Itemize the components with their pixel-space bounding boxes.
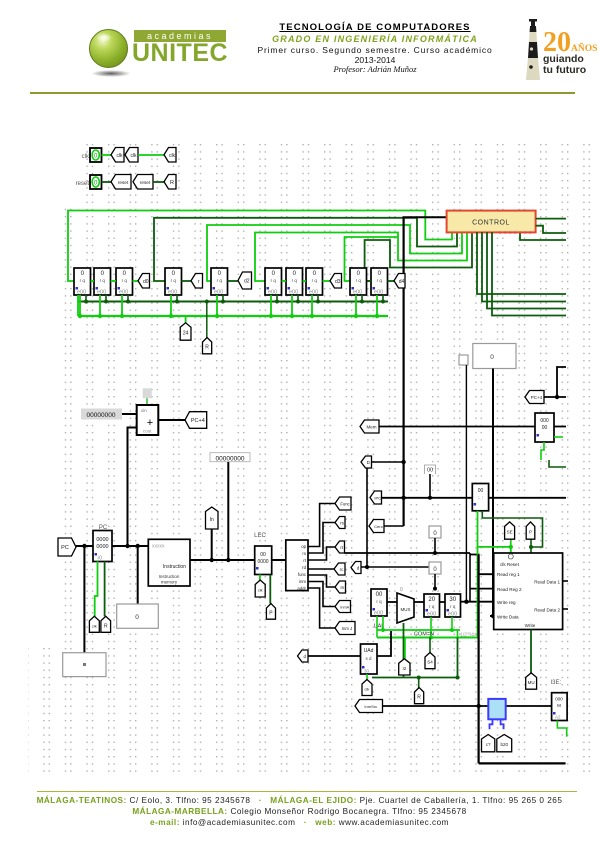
junction — [205, 300, 209, 304]
svg-text:r q: r q — [100, 278, 106, 283]
wire — [536, 226, 566, 233]
svg-text:e00: e00 — [374, 290, 383, 296]
junction — [104, 300, 108, 304]
wire — [470, 588, 494, 590]
tunnel P2 — [526, 522, 535, 539]
tunnel InmAli — [335, 601, 351, 613]
svg-text:InmA: InmA — [340, 606, 349, 610]
wire — [105, 295, 107, 302]
footer line 1 — [0, 796, 599, 805]
junction — [120, 314, 124, 318]
title line 1 — [230, 22, 520, 33]
wire — [465, 365, 467, 602]
junction — [125, 544, 129, 548]
svg-text:M: M — [557, 703, 561, 708]
tunnel blue a — [482, 735, 495, 752]
wire — [216, 295, 218, 316]
wire dg riser — [457, 638, 459, 678]
svg-text:Read reg 1: Read reg 1 — [497, 572, 520, 577]
svg-text:xxxxx: xxxxx — [152, 544, 165, 550]
register row box 3 — [116, 268, 133, 296]
title line 5 — [230, 64, 520, 74]
wire — [429, 638, 431, 653]
junction — [136, 544, 140, 548]
wire — [170, 295, 172, 316]
junction — [316, 300, 320, 304]
wire — [176, 295, 178, 302]
junction — [175, 300, 179, 304]
svg-text:LEC: LEC — [254, 533, 266, 539]
wire — [478, 555, 480, 764]
wire — [414, 601, 424, 603]
junction — [375, 314, 379, 318]
tunnel blue b — [497, 735, 512, 752]
control unit — [447, 211, 536, 233]
junction — [226, 558, 230, 562]
tunnel instr hang — [206, 507, 219, 529]
svg-text:e00: e00 — [214, 290, 223, 296]
svg-text:Mem: Mem — [367, 425, 377, 430]
wire lg zig — [541, 442, 544, 460]
junction — [84, 300, 88, 304]
junction — [210, 558, 214, 562]
wire — [477, 232, 566, 294]
box 0 mid2 — [429, 562, 441, 574]
svg-text:+: + — [147, 417, 153, 429]
tunnel Func — [335, 497, 351, 510]
svg-text:00000000: 00000000 — [87, 412, 116, 419]
wire — [282, 280, 287, 282]
wire — [384, 525, 404, 527]
junction — [275, 300, 279, 304]
wire — [388, 280, 395, 282]
junction — [365, 565, 369, 569]
wire control W1 — [68, 211, 452, 282]
logo shadow — [91, 70, 131, 77]
register row box 5 — [211, 268, 228, 296]
tunnel Inm — [335, 581, 346, 593]
wire — [211, 529, 213, 560]
mux — [397, 593, 414, 623]
wire lg bus b — [377, 637, 478, 639]
svg-text:R: R — [104, 623, 108, 629]
wire — [434, 538, 436, 553]
register X1 — [371, 589, 387, 617]
wire — [554, 436, 563, 438]
svg-text:In: In — [210, 517, 214, 523]
wire — [133, 280, 139, 282]
tunnel ImJ — [335, 622, 355, 635]
svg-text:r q: r q — [80, 278, 86, 283]
tunnel D hang — [361, 456, 372, 468]
junction — [290, 314, 294, 318]
wire rf out2 — [563, 608, 568, 610]
wire — [355, 295, 357, 316]
wire — [403, 216, 448, 218]
tunnel Cero — [369, 520, 384, 533]
tunnel PC+4 out — [185, 412, 207, 429]
register row box 1 — [74, 268, 91, 296]
wire — [457, 630, 459, 638]
wire — [479, 762, 566, 764]
svg-text:MU: MU — [528, 680, 535, 685]
wire — [492, 232, 566, 316]
svg-text:reset: reset — [140, 180, 151, 185]
svg-text:Write Data: Write Data — [497, 615, 519, 620]
wire — [376, 616, 378, 638]
register row box 2 — [94, 268, 111, 296]
wire — [137, 546, 139, 604]
wire — [185, 316, 187, 324]
junction — [555, 395, 559, 399]
wire — [308, 655, 361, 657]
svg-text:00: 00 — [542, 425, 548, 431]
junction — [429, 636, 433, 640]
svg-text:R: R — [205, 345, 209, 351]
svg-text:cout: cout — [143, 429, 152, 434]
junction — [491, 614, 495, 618]
svg-text::. :: :. : — [478, 495, 483, 500]
tunnel d4 — [394, 274, 405, 289]
label 00000000 — [210, 453, 250, 463]
wire — [544, 396, 566, 398]
wire — [492, 369, 494, 617]
svg-text:rs: rs — [302, 551, 306, 556]
wire — [308, 504, 335, 547]
svg-text:0: 0 — [490, 354, 494, 361]
tunnel r1 — [191, 274, 203, 289]
svg-text:clk: clk — [169, 153, 176, 159]
wire dg h 677 — [372, 677, 458, 679]
wire — [430, 617, 432, 638]
wire — [77, 295, 79, 316]
grey box bottom-left — [63, 653, 106, 677]
svg-text:memory: memory — [161, 580, 178, 585]
wire — [530, 630, 532, 674]
wire vertical bus — [403, 217, 405, 526]
wire — [112, 545, 148, 547]
svg-text:d4: d4 — [399, 279, 405, 285]
svg-text:r q: r q — [429, 604, 435, 609]
register row box 4 — [165, 268, 182, 296]
wire control W6 — [345, 237, 399, 281]
wire — [530, 539, 532, 553]
svg-text:Read Data 2: Read Data 2 — [534, 608, 560, 613]
svg-text:Func: Func — [340, 502, 349, 507]
svg-text:clk Reset: clk Reset — [500, 562, 520, 567]
svg-text:clk: clk — [82, 154, 90, 160]
svg-text:e00: e00 — [289, 290, 298, 296]
probe above adder — [143, 388, 152, 398]
junction — [456, 676, 460, 680]
wire — [111, 280, 117, 282]
tunnel d3 — [330, 274, 342, 289]
svg-text:clk: clk — [116, 153, 123, 159]
wire — [308, 547, 335, 560]
junction — [433, 587, 437, 591]
svg-text:A2: A2 — [555, 715, 561, 720]
svg-text:reset: reset — [76, 181, 90, 187]
svg-text:30: 30 — [449, 597, 456, 603]
svg-text:00: 00 — [260, 552, 266, 558]
wire — [490, 615, 494, 617]
svg-text:00: 00 — [376, 592, 383, 598]
wire — [272, 559, 286, 561]
svg-text:inm: inm — [299, 579, 306, 584]
tunnel InmSrc — [355, 700, 383, 713]
tunnel S4b hang — [425, 653, 435, 669]
svg-text:00000000: 00000000 — [216, 456, 245, 463]
svg-text:addr: addr — [297, 586, 306, 591]
tunnel P ir — [266, 604, 275, 620]
tunnel d0 — [138, 274, 150, 289]
svg-text:clk: clk — [258, 588, 263, 593]
tunnel R hang — [203, 338, 212, 354]
svg-text:UAd: UAd — [364, 648, 374, 654]
svg-text:r q: r q — [377, 278, 383, 283]
svg-text:clk: clk — [365, 687, 370, 692]
tunnel clk ir — [255, 580, 265, 597]
register row box 9 — [350, 268, 367, 296]
wire — [102, 181, 113, 183]
input pin clk — [90, 148, 102, 162]
wire rf out1 — [563, 580, 568, 582]
UNITEC wordmark — [132, 41, 238, 66]
wire — [99, 295, 101, 316]
wire control W2 — [154, 218, 457, 281]
junction — [354, 314, 358, 318]
wire — [104, 561, 106, 616]
wire — [308, 568, 335, 570]
tunnel S2 hang — [399, 659, 410, 675]
probe small — [459, 355, 468, 365]
svg-text:0: 0 — [135, 614, 139, 621]
wire — [297, 295, 299, 302]
wire — [190, 559, 255, 561]
svg-text:clk: clk — [130, 153, 137, 159]
tunnel mem hang — [360, 420, 379, 433]
wire — [557, 367, 566, 397]
logo ball highlight — [96, 33, 112, 42]
svg-text:Cero: Cero — [374, 524, 383, 529]
svg-text:00: 00 — [478, 488, 484, 494]
box 0 top — [473, 344, 516, 369]
tunnel R — [164, 175, 176, 190]
junction — [381, 628, 385, 632]
register IR — [255, 546, 272, 575]
junction — [464, 600, 468, 604]
svg-text:S4: S4 — [427, 660, 433, 665]
svg-text:SE: SE — [507, 530, 513, 535]
big 0 box left — [117, 604, 159, 628]
wire — [536, 218, 566, 220]
ual box — [361, 644, 378, 674]
svg-text:e00: e00 — [119, 290, 128, 296]
junction — [98, 314, 102, 318]
academias bar — [134, 30, 226, 42]
svg-text:Instruction: Instruction — [159, 574, 180, 579]
svg-text:Inm J: Inm J — [342, 626, 352, 631]
wire — [122, 413, 137, 415]
tunnel rc — [334, 563, 345, 575]
box 0 mid1 — [429, 526, 441, 538]
wire — [95, 561, 98, 616]
svg-text:cin: cin — [141, 408, 147, 413]
svg-text:24: 24 — [183, 331, 189, 337]
title line 4 — [230, 55, 520, 65]
wire — [366, 674, 368, 680]
wire — [470, 555, 494, 575]
tunnel R pc — [101, 616, 111, 632]
svg-text:e00: e00 — [353, 290, 362, 296]
svg-text:r q: r q — [356, 278, 362, 283]
svg-text:InmSrc: InmSrc — [364, 704, 377, 709]
tunnel reset a — [111, 175, 131, 190]
svg-text:PC+4: PC+4 — [191, 418, 205, 424]
svg-text:e00: e00 — [374, 611, 383, 617]
svg-text:PC: PC — [99, 525, 108, 531]
wire — [361, 295, 363, 302]
wire — [303, 280, 307, 282]
register X2 — [424, 594, 440, 618]
wire — [85, 295, 87, 302]
register EXE — [552, 693, 568, 721]
svg-text:r q: r q — [376, 599, 382, 604]
junction — [221, 300, 225, 304]
adder U-add — [137, 405, 159, 435]
svg-text:r q: r q — [312, 278, 318, 283]
wire — [482, 232, 566, 302]
wire — [79, 295, 81, 316]
junction — [401, 496, 405, 500]
wire — [182, 280, 192, 282]
junction — [417, 676, 421, 680]
wire — [490, 615, 495, 617]
wire — [308, 523, 335, 554]
svg-text:rd: rd — [302, 565, 306, 570]
wire — [520, 234, 566, 241]
wire — [376, 295, 378, 316]
svg-text:000: 000 — [540, 418, 549, 424]
svg-text:b20: b20 — [500, 742, 508, 747]
tunnel PC+4 in — [525, 391, 544, 404]
svg-text:reset: reset — [118, 180, 129, 185]
svg-text:Write reg: Write reg — [497, 600, 516, 605]
junction — [215, 314, 219, 318]
svg-text:00: 00 — [427, 468, 433, 474]
register row box 10 — [371, 268, 388, 296]
wire — [269, 575, 271, 604]
tunnel d2 — [238, 272, 252, 289]
svg-text:clk: clk — [92, 623, 97, 628]
wire — [440, 601, 446, 603]
wire — [308, 588, 335, 628]
svg-text:d0: d0 — [143, 279, 149, 285]
wire — [308, 575, 335, 587]
svg-text:r q: r q — [122, 278, 128, 283]
wire — [554, 426, 566, 428]
svg-text:0: 0 — [400, 587, 403, 593]
wire — [121, 295, 123, 316]
svg-text:0000: 0000 — [96, 537, 108, 543]
junction — [529, 545, 533, 549]
svg-text:R: R — [417, 695, 421, 701]
label 00 small — [425, 465, 436, 474]
wire — [429, 474, 431, 498]
svg-text:e00: e00 — [97, 290, 106, 296]
wire — [158, 419, 186, 421]
junction — [126, 300, 130, 304]
svg-text:PC+4: PC+4 — [531, 395, 543, 400]
wire dg mux down — [403, 623, 405, 678]
footer line 3 — [0, 818, 599, 827]
wire — [317, 295, 319, 302]
wire — [510, 547, 512, 553]
wire dark bus — [78, 301, 388, 303]
wire — [434, 574, 436, 589]
wire — [102, 154, 113, 156]
register PC — [93, 531, 112, 562]
tunnel clk b — [125, 148, 138, 163]
wire — [387, 601, 397, 603]
header separator line — [30, 92, 575, 94]
tunnel S4 hang — [180, 323, 191, 340]
wire long 553 — [345, 552, 471, 554]
tunnel MU — [526, 673, 537, 689]
junction — [310, 314, 314, 318]
svg-text:s d: s d — [365, 656, 372, 661]
wire — [372, 461, 404, 463]
wire — [276, 295, 278, 302]
register NPC — [535, 413, 554, 442]
junction — [509, 545, 513, 549]
register row box 7 — [286, 268, 303, 296]
svg-text:CONTROL: CONTROL — [472, 220, 510, 227]
wire — [379, 426, 535, 428]
svg-text:1/2?/4=2: 1/2?/4=2 — [460, 633, 480, 639]
wire long 706 — [383, 705, 567, 707]
decoder box — [286, 540, 308, 591]
wire control W3 — [207, 225, 462, 281]
junction — [450, 628, 454, 632]
svg-text:r q: r q — [171, 278, 177, 283]
wire — [227, 462, 229, 560]
svg-text:Instruction: Instruction — [163, 564, 186, 570]
footer separator line — [37, 791, 577, 792]
tunnel R b — [415, 688, 424, 704]
wire — [366, 468, 368, 567]
svg-text:e00: e00 — [427, 612, 436, 618]
tunnel clk c — [164, 148, 176, 163]
junction — [381, 300, 385, 304]
svg-text:func: func — [298, 572, 307, 577]
svg-text:Read Data 1: Read Data 1 — [534, 580, 560, 585]
junction — [78, 314, 82, 318]
title line 3 — [230, 45, 520, 55]
wire — [323, 280, 331, 282]
wire lg bus a — [377, 629, 460, 631]
tunnel rt — [335, 541, 345, 553]
svg-text:IPC: IPC — [374, 496, 381, 501]
lighthouse icon — [518, 18, 548, 82]
register row box 6 — [265, 268, 282, 296]
wire — [382, 616, 384, 630]
svg-text:d2: d2 — [244, 279, 250, 285]
svg-text:PC: PC — [61, 545, 69, 551]
blue selector — [488, 699, 505, 729]
wire — [259, 575, 261, 581]
wire — [146, 398, 148, 405]
